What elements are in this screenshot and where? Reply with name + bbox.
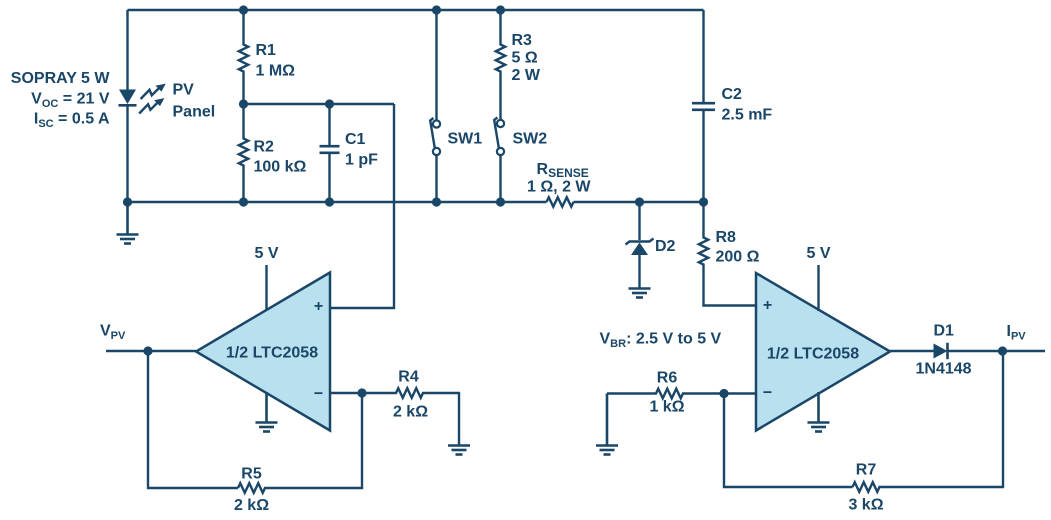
ground R6 xyxy=(596,394,618,455)
svg-text:+: + xyxy=(763,297,772,314)
svg-text:1/2 LTC2058: 1/2 LTC2058 xyxy=(226,345,318,362)
svg-text:2 W: 2 W xyxy=(512,67,541,84)
wire output to IPV xyxy=(947,350,1045,352)
wire mid rail xyxy=(244,103,395,105)
ground under PV xyxy=(117,202,139,244)
resistor R7 xyxy=(848,351,1003,514)
svg-text:R5: R5 xyxy=(241,466,262,483)
op-amp U1 (left, mirrored) xyxy=(196,273,330,431)
svg-text:R1: R1 xyxy=(256,42,277,59)
svg-text:R6: R6 xyxy=(657,370,678,387)
svg-text:200 Ω: 200 Ω xyxy=(716,249,760,266)
svg-text:R2: R2 xyxy=(254,139,275,156)
wire PV branch lower xyxy=(126,106,128,203)
PV arrows xyxy=(139,84,166,114)
svg-text:2.5 mF: 2.5 mF xyxy=(722,107,773,124)
svg-text:5 V: 5 V xyxy=(806,245,830,262)
ground U2 xyxy=(808,392,830,432)
svg-text:C2: C2 xyxy=(722,86,743,103)
svg-text:D1: D1 xyxy=(934,323,955,340)
svg-text:−: − xyxy=(314,386,323,403)
zener diode D2 xyxy=(626,202,676,288)
wire R7 feedback loop xyxy=(724,394,853,488)
svg-text:−: − xyxy=(763,385,772,402)
resistor R3 xyxy=(496,10,541,120)
svg-text:5 Ω: 5 Ω xyxy=(512,50,538,67)
svg-text:1 pF: 1 pF xyxy=(345,152,378,169)
svg-text:5 V: 5 V xyxy=(254,245,278,262)
svg-text:1 Ω, 2 W: 1 Ω, 2 W xyxy=(527,179,591,196)
svg-text:SW2: SW2 xyxy=(513,131,548,148)
capacitor C1 xyxy=(320,104,379,202)
resistor RSENSE xyxy=(527,161,591,207)
svg-text:R7: R7 xyxy=(856,462,877,479)
op-amp U2 (right) xyxy=(756,273,890,431)
svg-text:PV: PV xyxy=(173,82,195,99)
svg-text:1/2 LTC2058: 1/2 LTC2058 xyxy=(767,346,859,363)
wire U2 output xyxy=(890,350,934,352)
diode D1 xyxy=(916,323,972,378)
svg-text:R8: R8 xyxy=(716,229,737,246)
svg-text:+: + xyxy=(314,298,323,315)
svg-text:D2: D2 xyxy=(655,238,676,255)
5V supply U2 xyxy=(806,245,830,311)
switch SW1 xyxy=(430,10,482,202)
svg-text:100 kΩ: 100 kΩ xyxy=(254,159,307,176)
switch SW2 xyxy=(494,118,547,203)
ground U1 xyxy=(256,392,278,432)
svg-text:1N4148: 1N4148 xyxy=(916,361,972,378)
wire left PV branch upper xyxy=(126,10,128,90)
wire bottom rail xyxy=(128,201,547,203)
svg-text:Panel: Panel xyxy=(173,104,216,121)
svg-text:1 kΩ: 1 kΩ xyxy=(649,399,684,416)
svg-text:R3: R3 xyxy=(512,32,533,49)
resistor R4 xyxy=(362,369,459,445)
ground under R4 xyxy=(448,446,470,455)
wire feedback R5 loop xyxy=(148,351,238,488)
resistor R2 xyxy=(239,104,307,202)
svg-text:1 MΩ: 1 MΩ xyxy=(256,63,296,80)
resistor R8 xyxy=(699,202,760,306)
PV panel diode xyxy=(119,90,136,105)
svg-text:2 kΩ: 2 kΩ xyxy=(234,497,269,514)
svg-text:SOPRAY 5 W: SOPRAY 5 W xyxy=(11,70,111,87)
capacitor C2 xyxy=(692,10,772,202)
resistor R6 xyxy=(607,370,756,416)
svg-text:R4: R4 xyxy=(398,369,419,386)
ground under D2 xyxy=(629,289,651,298)
resistor R5 xyxy=(234,393,362,514)
svg-text:SW1: SW1 xyxy=(448,131,483,148)
svg-text:2 kΩ: 2 kΩ xyxy=(393,404,428,421)
resistor R1 xyxy=(239,10,295,104)
5V supply U1 xyxy=(254,245,278,310)
wire top rail xyxy=(128,9,704,11)
wire U1 minus output xyxy=(330,392,362,394)
svg-text:3 kΩ: 3 kΩ xyxy=(848,497,883,514)
svg-text:C1: C1 xyxy=(345,131,366,148)
wire bottom rail right xyxy=(574,201,705,203)
wire right feedback branch to op-amp U1 + xyxy=(330,104,394,308)
wire VPV input xyxy=(106,350,196,352)
